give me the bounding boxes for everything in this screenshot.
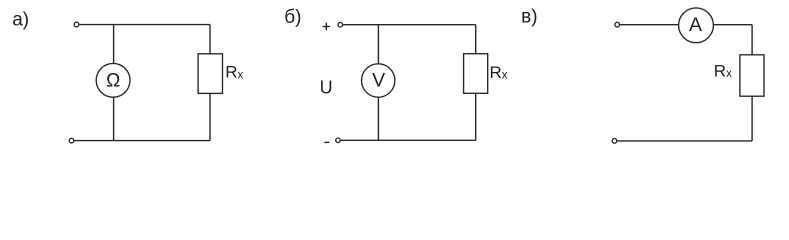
terminal bottom-left (circuit а)	[69, 138, 74, 143]
wire top right of ammeter (circuit в)	[713, 24, 752, 26]
wire ohmmeter to bottom (circuit а)	[113, 97, 115, 141]
wire voltmeter feed top (circuit б)	[377, 25, 379, 64]
wire top left of ammeter (circuit в)	[620, 24, 679, 26]
svg-text:в): в)	[521, 7, 537, 28]
wire bottom (circuit а)	[74, 140, 210, 142]
terminal bottom-left (circuit б)	[336, 138, 341, 143]
resistor Rx (circuit б)	[464, 54, 488, 94]
resistor Rx (circuit в)	[740, 55, 764, 96]
label - polarity (circuit б)	[324, 141, 329, 143]
wire right branch (circuit б)	[475, 25, 477, 141]
terminal top-left (circuit б)	[338, 22, 343, 27]
ohmmeter	[96, 63, 130, 97]
svg-text:б): б)	[284, 7, 301, 28]
wire voltmeter to bottom (circuit б)	[377, 97, 379, 140]
svg-text:Ω: Ω	[106, 70, 120, 91]
wire right branch (circuit в)	[751, 25, 753, 141]
wire right branch (circuit а)	[209, 25, 211, 141]
voltmeter	[362, 64, 395, 97]
wire top (circuit б)	[343, 24, 476, 26]
svg-text:Rx: Rx	[714, 61, 732, 80]
resistor Rx (circuit а)	[198, 54, 222, 94]
svg-text:Rx: Rx	[490, 63, 508, 82]
svg-text:Rx: Rx	[225, 63, 243, 82]
terminal top-left (circuit а)	[74, 22, 79, 27]
svg-text:а): а)	[12, 9, 29, 30]
svg-text:U: U	[320, 78, 333, 98]
wire top (circuit а)	[79, 24, 210, 26]
wire bottom (circuit б)	[341, 139, 476, 141]
terminal top-left (circuit в)	[615, 22, 620, 27]
wire bottom (circuit в)	[617, 140, 752, 142]
svg-text:A: A	[689, 14, 702, 36]
terminal bottom-left (circuit в)	[612, 139, 617, 144]
label + polarity (circuit б)	[323, 23, 331, 31]
ammeter	[679, 8, 714, 43]
wire ohmmeter feed top (circuit а)	[113, 25, 115, 64]
svg-text:V: V	[372, 69, 385, 91]
